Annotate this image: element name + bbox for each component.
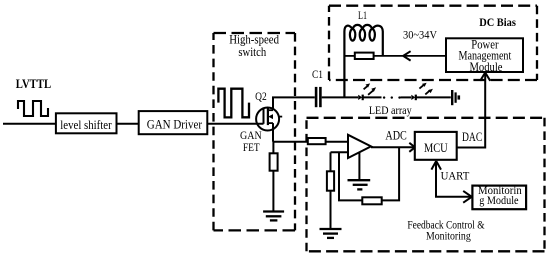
svg-text:switch: switch (238, 45, 266, 59)
resistor (inverting leg, vertical) (327, 171, 334, 190)
wire sense resistor to op-amp input (326, 141, 348, 143)
wire MCU to Power Management (DAC) (457, 74, 486, 148)
svg-text:GAN Driver: GAN Driver (147, 117, 203, 132)
resistor (shunt, vertical) (270, 153, 278, 170)
ground (LED array return, sideways bars) (452, 90, 459, 105)
wire node A to sense resistor (273, 141, 308, 143)
DC Bias dashed box (329, 6, 537, 80)
svg-text:ADC: ADC (385, 129, 406, 143)
wire level shifter to GAN Driver (117, 123, 139, 125)
wire inverting input (331, 151, 349, 153)
wire feedback branch down (339, 152, 362, 200)
wire drain of Q2 up and right to C1 (273, 97, 315, 110)
arrowhead (power flow, pointing left) (403, 51, 410, 60)
wire resistor to ground (330, 191, 332, 229)
svg-text:Feedback Control &: Feedback Control & (407, 219, 484, 231)
wire source of Q2 down to node A (272, 123, 274, 142)
High-speed switch box label (229, 32, 279, 59)
svg-text:30~34V: 30~34V (403, 28, 437, 42)
arrowhead into MCU (409, 143, 415, 152)
LED D1 (358, 83, 376, 100)
resistor (feedback, horizontal) (362, 197, 381, 204)
wire to LED D2 (401, 96, 412, 98)
svg-text:High-speed: High-speed (229, 32, 279, 46)
transistor Q2 GAN FET (MOSFET in circle) (256, 108, 282, 131)
ground (below shunt resistor) (263, 212, 284, 221)
gate drive waveform (218, 89, 249, 118)
wire MCU UART down and right (436, 161, 472, 197)
svg-text:C1: C1 (312, 69, 323, 81)
svg-text:Module: Module (470, 60, 503, 74)
svg-text:Monitoring: Monitoring (426, 231, 471, 243)
wire input to level shifter (3, 123, 56, 125)
wire LED D2 to ground (416, 96, 451, 98)
resistor (DC bias damping) (344, 53, 446, 59)
dots (LED array continuation) (383, 96, 401, 98)
GAN FET label (240, 128, 262, 154)
svg-text:level shifter: level shifter (60, 117, 112, 132)
svg-text:FET: FET (243, 140, 260, 154)
wire feedback resistor up to output (382, 147, 399, 200)
svg-text:LED array: LED array (369, 104, 412, 117)
Power Management Module block (446, 37, 523, 74)
inductor L1 (344, 25, 382, 98)
Feedback Control box label (407, 219, 484, 242)
svg-text:DC Bias: DC Bias (479, 15, 516, 29)
svg-text:L1: L1 (358, 9, 367, 22)
level shifter block (56, 113, 117, 133)
ground (inverting leg) (320, 229, 342, 238)
wire shunt resistor to ground (272, 171, 274, 212)
wire op-amp ground stem (358, 153, 360, 181)
wire node A down to shunt resistor (272, 142, 274, 154)
svg-text:Q2: Q2 (255, 89, 267, 103)
LVTTL input waveform (18, 101, 48, 116)
High-speed switch dashed box (214, 33, 296, 230)
svg-text:LVTTL: LVTTL (16, 77, 51, 91)
Monitoring Module block (472, 184, 526, 209)
wire GAN Driver to gate of Q2 (207, 123, 263, 125)
svg-text:MCU: MCU (424, 141, 448, 155)
op-amp U1 (348, 135, 371, 158)
capacitor C1 (316, 87, 320, 107)
resistor (sense, horizontal) (308, 138, 326, 144)
svg-text:DAC: DAC (462, 130, 482, 144)
svg-text:g Module: g Module (479, 194, 518, 207)
GAN Driver block (139, 111, 208, 134)
wire op-amp output to MCU (371, 146, 415, 148)
arrowhead up into Power Management Module (480, 73, 490, 81)
svg-text:UART: UART (441, 169, 470, 183)
LED D2 (411, 83, 433, 100)
wire after LED D1 (363, 96, 382, 98)
MCU block (415, 132, 457, 160)
arrowhead up into MCU (UART) (431, 161, 441, 170)
Feedback Control dashed box (307, 118, 545, 252)
arrowhead right into Monitoring Module (463, 191, 472, 203)
wire C1 to LED array (322, 96, 358, 98)
ground (op-amp) (348, 180, 371, 189)
wire inverting branch down (330, 152, 332, 171)
